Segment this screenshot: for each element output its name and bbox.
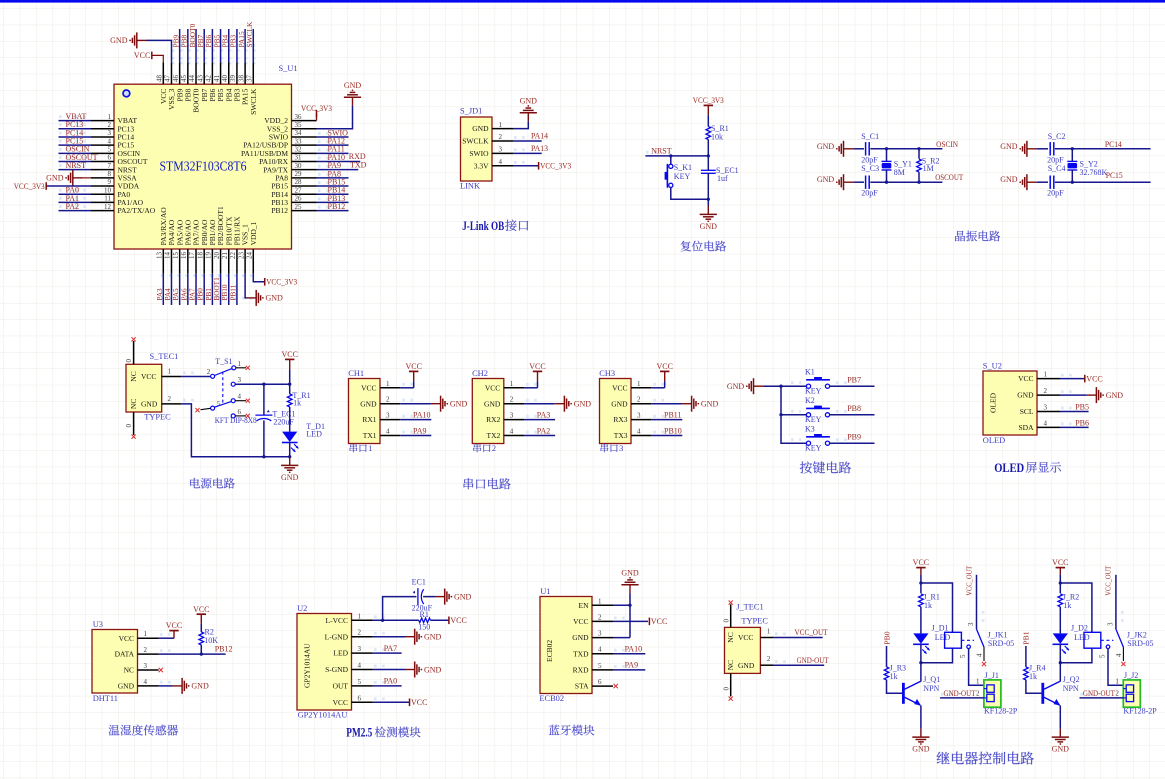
- MCU pin 10 PA0: [91, 193, 114, 195]
- wire VCC pin6: [373, 701, 410, 703]
- S_TEC1 pin 2: [162, 403, 182, 405]
- wire R to LED: [920, 607, 922, 634]
- svg-text:32: 32: [295, 146, 303, 154]
- svg-text:EC1: EC1: [412, 577, 426, 586]
- svg-text:L-VCC: L-VCC: [326, 616, 349, 625]
- wire net PC15: [59, 144, 92, 146]
- svg-text:GND: GND: [46, 174, 64, 183]
- svg-text:SCL: SCL: [1020, 407, 1034, 416]
- ground at OLED: [1087, 394, 1097, 396]
- svg-text:VCC: VCC: [651, 617, 667, 626]
- connector CH2 pin 3 RX2: [504, 419, 524, 421]
- wire net PB12: [317, 210, 349, 212]
- wire net PA10: [613, 653, 645, 655]
- svg-text:NC: NC: [726, 632, 735, 642]
- wire net BOOT0: [195, 29, 197, 62]
- capacitor T_EC1 220uF: [255, 414, 272, 416]
- ground keys: [754, 385, 764, 387]
- svg-text:TX3: TX3: [614, 431, 628, 440]
- svg-text:LED: LED: [306, 429, 322, 438]
- svg-text:GND: GND: [266, 294, 284, 303]
- svg-text:2: 2: [976, 690, 980, 698]
- wire net GND-OUT: [774, 664, 825, 666]
- ground at J_Q2: [1059, 729, 1061, 737]
- svg-text:PB6: PB6: [1075, 418, 1089, 427]
- wire CH3 GND: [651, 403, 682, 405]
- wire junction up to EC1: [383, 597, 417, 621]
- svg-text:150: 150: [418, 623, 430, 632]
- svg-text:NC: NC: [124, 666, 134, 675]
- svg-text:20: 20: [213, 252, 221, 260]
- svg-text:4: 4: [499, 158, 503, 166]
- svg-text:4: 4: [358, 662, 362, 670]
- wire net PB5: [220, 29, 222, 62]
- svg-text:PB12: PB12: [271, 206, 288, 215]
- power VCC at R2: [197, 613, 206, 615]
- svg-text:GND: GND: [727, 382, 745, 391]
- svg-text:6: 6: [108, 154, 112, 162]
- connector CH3 pin 4 TX3: [631, 435, 651, 437]
- J_TEC1 pin 1: [760, 637, 773, 639]
- connector J_J1 body: [984, 680, 1001, 707]
- svg-text:GND: GND: [141, 400, 158, 409]
- svg-text:KEY: KEY: [805, 415, 822, 424]
- connector CH2 pin 4 TX2: [504, 435, 524, 437]
- svg-text:VCC: VCC: [405, 362, 421, 371]
- ground at S_C1: [844, 148, 854, 150]
- svg-text:GND: GND: [572, 633, 589, 642]
- svg-text:BOOT1: BOOT1: [213, 277, 221, 301]
- OLED pin 4 SDA: [1037, 426, 1060, 428]
- svg-text:15: 15: [172, 252, 180, 260]
- relay coil J_JK2: [1084, 632, 1101, 648]
- power VCC_3V3 at MCU pin 36: [316, 114, 318, 121]
- wire LED to collector: [1059, 644, 1061, 681]
- wire net PB6: [1060, 426, 1089, 428]
- ground at DHT: [172, 685, 182, 687]
- wire R to base: [1026, 680, 1042, 693]
- svg-text:4: 4: [510, 428, 514, 436]
- capacitor S_C4 20pF: [1049, 176, 1051, 189]
- svg-text:VCC_3V3: VCC_3V3: [540, 162, 571, 171]
- ground at CH2: [555, 403, 565, 405]
- wire R to LED: [1059, 607, 1061, 634]
- svg-text:5: 5: [108, 146, 112, 154]
- svg-text:U1: U1: [540, 587, 550, 596]
- wire to key K3: [781, 442, 806, 444]
- svg-text:NRST: NRST: [66, 161, 87, 170]
- wire CH3 VCC: [651, 387, 664, 389]
- MCU pin 8 VSSA: [91, 177, 114, 179]
- svg-text:TYPEC: TYPEC: [144, 413, 171, 422]
- svg-text:OSCIN: OSCIN: [936, 140, 958, 149]
- svg-text:PB11: PB11: [229, 284, 237, 300]
- svg-text:16: 16: [180, 252, 188, 260]
- svg-text:4: 4: [598, 646, 602, 654]
- wire net PB9: [179, 29, 181, 62]
- MCU pin 25 PB12: [292, 210, 317, 212]
- svg-text:2: 2: [767, 655, 771, 663]
- svg-text:OLED: OLED: [994, 460, 1024, 475]
- svg-text:GND: GND: [424, 665, 442, 674]
- ground at MCU pin 23: [247, 297, 257, 299]
- svg-text:SRD-05: SRD-05: [988, 639, 1014, 648]
- svg-text:S-GND: S-GND: [325, 665, 349, 674]
- title power circuit: [190, 478, 235, 489]
- svg-text:32.768K: 32.768K: [1080, 168, 1108, 177]
- MCU pin 30 PA9/TX: [292, 169, 317, 171]
- wire net PB11: [651, 419, 682, 421]
- svg-text:3: 3: [1107, 622, 1115, 626]
- ground at EC1: [435, 596, 445, 598]
- svg-text:GND: GND: [574, 400, 592, 409]
- MCU pin 12 PA2/TX/AO: [91, 210, 114, 212]
- svg-text:1: 1: [598, 597, 602, 605]
- wire net PA13: [513, 152, 542, 154]
- wire pin5 to connector: [969, 649, 984, 686]
- svg-text:LED: LED: [935, 633, 951, 642]
- svg-text:PA10: PA10: [413, 411, 431, 420]
- connector CH1 pin 4 TX1: [380, 435, 400, 437]
- svg-text:2: 2: [358, 629, 362, 637]
- svg-text:VCC: VCC: [281, 350, 297, 359]
- title reset circuit: [681, 241, 726, 252]
- wire net OSCIN: [59, 152, 92, 154]
- svg-text:GND: GND: [344, 81, 362, 90]
- wire node to cap T_EC1: [263, 384, 265, 415]
- svg-text:22: 22: [229, 252, 237, 260]
- connector CH3 pin 1 VCC: [631, 387, 651, 389]
- capacitor S_C3 20pF: [865, 176, 867, 189]
- wire to key K2: [781, 414, 806, 416]
- svg-text:PB10: PB10: [664, 427, 682, 436]
- ground at S_C4: [1027, 181, 1037, 183]
- wire base net: [1025, 646, 1027, 667]
- wire R2 bottom: [918, 172, 920, 182]
- ground at S-GND: [405, 669, 415, 671]
- U1 pin 4 TXD: [592, 653, 613, 655]
- MCU pin 32 PA11/USB/DM: [292, 152, 317, 154]
- module U1 ECB02 body: [540, 597, 592, 694]
- wire net PB7: [203, 29, 205, 62]
- svg-text:29: 29: [295, 170, 303, 178]
- wire DHT VCC: [159, 637, 174, 639]
- U2 pin 5 OUT: [352, 685, 373, 687]
- DHT11 pin 3 NC: [138, 669, 159, 671]
- svg-text:4: 4: [1044, 419, 1048, 427]
- svg-text:20pF: 20pF: [861, 188, 878, 197]
- svg-text:NC: NC: [726, 660, 735, 670]
- svg-text:J_J1: J_J1: [985, 671, 999, 680]
- svg-text:PB5: PB5: [1075, 403, 1089, 412]
- svg-text:1: 1: [238, 360, 242, 368]
- wire MCU pin 35 VSS_2 to ground: [317, 106, 353, 129]
- MCU pin 47 VSS_3: [170, 62, 172, 84]
- svg-text:20pF: 20pF: [1047, 188, 1064, 197]
- wire VCC to R2: [200, 624, 202, 632]
- power VCC driver J_Q1: [916, 567, 925, 569]
- wire EC1 to ground: [423, 596, 435, 598]
- svg-text:SRD-05: SRD-05: [1127, 639, 1153, 648]
- svg-text:L-GND: L-GND: [325, 632, 349, 641]
- title bluetooth module: [549, 725, 595, 736]
- svg-text:2: 2: [1115, 690, 1119, 698]
- capacitor S_C2 20pF: [1049, 142, 1051, 155]
- wire net PB14: [317, 193, 349, 195]
- wire to key S_K1: [670, 156, 672, 164]
- svg-text:K2: K2: [805, 396, 815, 405]
- svg-text:GND: GND: [1017, 391, 1034, 400]
- wire node to coil: [921, 648, 953, 663]
- wire key to node2: [671, 187, 709, 199]
- svg-text:GND: GND: [1106, 391, 1124, 400]
- wire net PA10: [400, 419, 431, 421]
- svg-text:S_JD1: S_JD1: [460, 107, 482, 116]
- svg-text:3: 3: [1044, 404, 1048, 412]
- svg-text:GND: GND: [424, 633, 442, 642]
- wire net PB10: [228, 274, 230, 305]
- svg-text:2: 2: [510, 396, 514, 404]
- MCU pin 33 PA12/USB/DP: [292, 144, 317, 146]
- svg-text:VCC: VCC: [450, 616, 466, 625]
- svg-text:GND: GND: [118, 682, 135, 691]
- resistor J_R3 1k: [884, 667, 889, 680]
- wire net NRST: [645, 155, 708, 157]
- wire pin5 to connector: [1108, 649, 1123, 686]
- title serial circuit: [464, 478, 511, 489]
- svg-text:GND: GND: [360, 399, 377, 408]
- MCU pin 14 PA4/AO: [170, 249, 172, 274]
- MCU pin 23 VSS_1: [244, 249, 246, 274]
- junction L-VCC: [381, 619, 384, 622]
- svg-text:2: 2: [1044, 387, 1048, 395]
- svg-text:PB1: PB1: [205, 288, 213, 301]
- svg-text:5: 5: [959, 654, 967, 658]
- svg-text:10K: 10K: [204, 636, 218, 645]
- svg-text:1k: 1k: [890, 672, 898, 681]
- MCU pin 28 PB15: [292, 185, 317, 187]
- wire net PA15: [244, 29, 246, 62]
- wire R1 to VCC: [430, 619, 449, 621]
- svg-text:KF128-2P: KF128-2P: [1123, 706, 1157, 715]
- wire LED to ground: [289, 443, 291, 458]
- svg-text:GND: GND: [817, 142, 835, 151]
- svg-text:11: 11: [104, 195, 111, 203]
- svg-text:GND: GND: [1052, 745, 1070, 754]
- svg-text:CH2: CH2: [472, 369, 488, 378]
- MCU pin 40 PB4: [228, 62, 230, 84]
- LED T_D1: [282, 432, 297, 442]
- svg-text:VCC_3V3: VCC_3V3: [14, 182, 45, 191]
- svg-text:GND: GND: [611, 399, 628, 408]
- svg-text:1: 1: [499, 121, 503, 129]
- svg-text:7: 7: [108, 162, 112, 170]
- junction crystal2 top: [1071, 147, 1074, 150]
- svg-text:2: 2: [207, 368, 211, 376]
- wire VCC node: [920, 575, 922, 594]
- OLED pin 3 SCL: [1037, 411, 1060, 413]
- svg-text:1uf: 1uf: [717, 174, 728, 183]
- svg-text:4: 4: [975, 653, 983, 657]
- wire LED to collector: [920, 644, 922, 681]
- svg-text:2: 2: [168, 395, 172, 403]
- power VCC: [285, 358, 294, 360]
- wire MCU pin 24 VDD_1 to VCC_3V3: [253, 274, 264, 282]
- capacitor S_EC1 1uf: [701, 169, 716, 171]
- ground reset: [707, 206, 709, 214]
- svg-text:8: 8: [108, 170, 112, 178]
- svg-text:NC: NC: [129, 371, 138, 381]
- wire net PA0: [373, 685, 402, 687]
- connector S_TEC1 body: [126, 364, 162, 412]
- svg-text:30: 30: [295, 162, 303, 170]
- wire net BOOT1: [220, 274, 222, 305]
- capacitor S_C1 20pF: [865, 142, 867, 155]
- svg-text:PC14: PC14: [1105, 140, 1122, 149]
- module U2 GP2Y1014AU body: [297, 614, 352, 711]
- MCU pin 22 PB11/RX: [236, 249, 238, 274]
- connector S_JD1 body: [461, 117, 493, 181]
- junction at cap top: [262, 383, 265, 386]
- svg-text:S_C3: S_C3: [861, 164, 879, 173]
- svg-text:S_U1: S_U1: [279, 64, 298, 73]
- svg-text:1: 1: [510, 380, 514, 388]
- label serial port 1: [350, 444, 367, 453]
- ground at MCU pin 8 VSSA: [83, 177, 92, 179]
- wire switch pin3 to VCC node: [235, 383, 290, 385]
- svg-text:VCC: VCC: [1018, 374, 1033, 383]
- svg-text:VCC: VCC: [119, 634, 134, 643]
- svg-text:37: 37: [245, 75, 253, 83]
- svg-text:42: 42: [205, 75, 213, 83]
- svg-text:1k: 1k: [1063, 601, 1071, 610]
- svg-text:TX1: TX1: [363, 431, 377, 440]
- connector CH1 pin 3 RX1: [380, 419, 400, 421]
- U1 pin 2 VCC: [592, 620, 613, 622]
- key K3: [806, 441, 810, 445]
- svg-text:J_J2: J_J2: [1124, 671, 1138, 680]
- svg-text:VCC: VCC: [656, 362, 672, 371]
- svg-text:PA9: PA9: [625, 661, 639, 670]
- MCU pin 20 PB2/BOOT1: [220, 249, 222, 274]
- MCU pin 46 PB9: [179, 62, 181, 84]
- svg-text:PB12: PB12: [215, 644, 233, 653]
- svg-text:1k: 1k: [1029, 672, 1037, 681]
- ground at S_C3: [844, 181, 854, 183]
- resistor R1 150: [419, 618, 431, 623]
- svg-text:3: 3: [967, 622, 975, 626]
- junction at cap bottom: [262, 455, 265, 458]
- wire OLED GND: [1060, 394, 1087, 396]
- svg-text:31: 31: [295, 154, 303, 162]
- wire crystal Y1 top: [886, 149, 888, 162]
- wire net NRST: [59, 169, 92, 171]
- MCU pin 18 PB0/AO: [203, 249, 205, 274]
- J_TEC1 pin 2: [760, 664, 773, 666]
- svg-text:PA9: PA9: [413, 427, 427, 436]
- wire net PC13: [59, 128, 92, 130]
- svg-text:3.3V: 3.3V: [474, 161, 489, 170]
- svg-text:GND: GND: [450, 400, 468, 409]
- J_TEC1 top pin 0: [730, 604, 732, 627]
- svg-text:PA2/TX/AO: PA2/TX/AO: [118, 206, 156, 215]
- resistor T_R1 1k: [287, 394, 292, 407]
- svg-text:4: 4: [386, 428, 390, 436]
- svg-text:VCC: VCC: [193, 605, 209, 614]
- MCU pin 1 VBAT: [91, 120, 114, 122]
- DHT11 pin 4 GND: [138, 685, 159, 687]
- title crystal circuit: [955, 231, 1000, 242]
- svg-text:J_Q2: J_Q2: [1063, 675, 1080, 684]
- wire PC15: [1055, 181, 1151, 183]
- svg-text:GND: GND: [1000, 175, 1018, 184]
- svg-text:VCC: VCC: [1052, 558, 1068, 567]
- LED J_D2: [1053, 633, 1068, 643]
- svg-text:KEY: KEY: [805, 444, 822, 453]
- wire net PA9: [317, 169, 359, 171]
- svg-text:STM32F103C8T6: STM32F103C8T6: [160, 159, 247, 174]
- svg-text:VCC: VCC: [333, 698, 348, 707]
- wire OSCOUT: [870, 181, 942, 183]
- junction node2: [707, 198, 710, 201]
- svg-text:GND: GND: [281, 473, 299, 482]
- svg-text:S_C2: S_C2: [1048, 132, 1066, 141]
- svg-text:1: 1: [368, 444, 372, 453]
- svg-text:PA3: PA3: [156, 288, 164, 301]
- svg-text:3: 3: [598, 630, 602, 638]
- ground power: [289, 457, 291, 465]
- wire net SWIO: [317, 136, 349, 138]
- svg-text:5: 5: [358, 678, 362, 686]
- svg-text:6: 6: [598, 678, 602, 686]
- svg-text:TXD: TXD: [350, 160, 367, 169]
- svg-text:VCC: VCC: [166, 621, 182, 630]
- wire L-VCC to R1: [373, 619, 419, 621]
- power VCC at OLED: [1084, 375, 1086, 383]
- svg-text:3: 3: [238, 376, 242, 384]
- svg-text:PA13: PA13: [531, 144, 548, 153]
- relay coil J_JK1: [945, 632, 962, 648]
- svg-text:NRST: NRST: [651, 146, 672, 155]
- svg-text:44: 44: [188, 75, 196, 83]
- svg-text:0: 0: [125, 424, 133, 428]
- wire net VBAT: [59, 120, 92, 122]
- svg-text:2: 2: [637, 396, 641, 404]
- junction data node: [200, 652, 203, 655]
- svg-text:4: 4: [1115, 653, 1123, 657]
- svg-text:45: 45: [180, 75, 188, 83]
- wire net PA14: [513, 140, 542, 142]
- svg-text:VCC: VCC: [738, 633, 753, 642]
- label serial port 3: [601, 444, 618, 453]
- svg-text:J-Link OB: J-Link OB: [462, 218, 504, 233]
- svg-text:J_Q1: J_Q1: [923, 675, 940, 684]
- title relay control circuit: [937, 752, 1034, 765]
- svg-text:PB10: PB10: [221, 284, 229, 300]
- svg-text:8M: 8M: [894, 168, 905, 177]
- wire to key K1: [781, 385, 806, 387]
- svg-text:2: 2: [598, 613, 602, 621]
- connector CH2 body: [472, 379, 504, 444]
- title temperature humidity sensor: [109, 725, 178, 736]
- crystal S_Y1 8M: [882, 160, 892, 162]
- DHT11 pin 2 DATA: [138, 653, 159, 655]
- svg-text:LED: LED: [333, 649, 348, 658]
- svg-text:23: 23: [237, 252, 245, 260]
- svg-text:PA10: PA10: [625, 644, 643, 653]
- svg-text:OLED: OLED: [989, 392, 998, 413]
- relay contact pin 4 no-connect: [983, 647, 985, 661]
